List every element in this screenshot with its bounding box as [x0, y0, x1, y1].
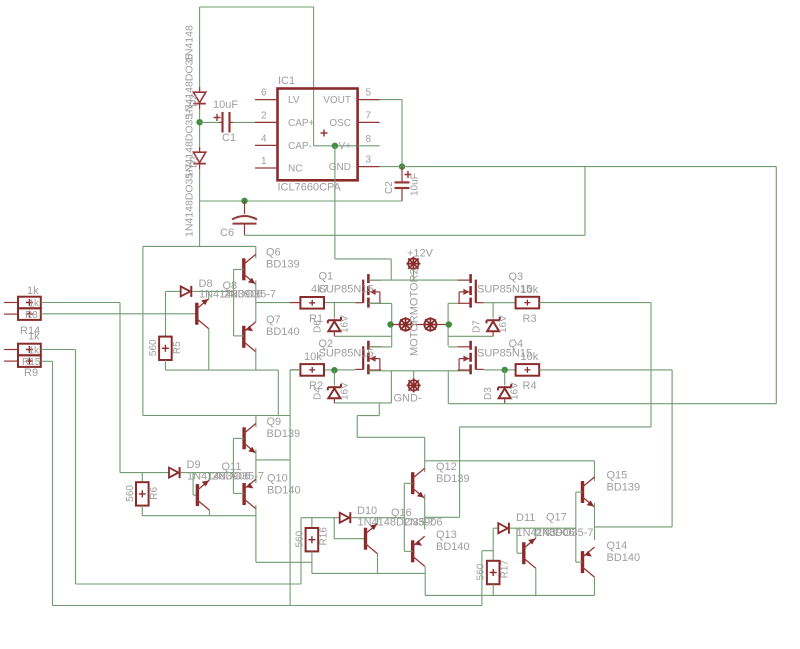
wire driver1 to R1 — [256, 302, 290, 304]
wire GND branch down — [584, 167, 586, 236]
transistor Q3 SUP85N15 — [458, 274, 484, 308]
pin 6 LV stub — [255, 99, 278, 101]
capacitor C1 — [214, 112, 234, 133]
svg-text:+12V: +12V — [407, 248, 434, 260]
wire input3 up — [300, 518, 302, 584]
motor terminal 2 — [423, 317, 438, 332]
resistor R15 — [4, 344, 41, 356]
transistor Q8 2N3906 — [197, 299, 209, 329]
wire R6 top — [141, 473, 143, 483]
svg-text:CAP+: CAP+ — [288, 118, 315, 129]
svg-text:R6: R6 — [149, 486, 160, 499]
wire Q17 base — [517, 552, 524, 554]
wire R16 bottom — [311, 551, 313, 573]
transistor Q13 BD140 — [413, 536, 425, 566]
svg-text:D10: D10 — [357, 505, 377, 517]
motor terminal 1 — [398, 317, 413, 332]
wire stage3 tap — [425, 516, 460, 518]
wire collector rail 3 — [425, 460, 595, 462]
svg-text:16V: 16V — [340, 315, 351, 333]
wire GND- stub — [413, 371, 415, 380]
svg-text:D11: D11 — [516, 512, 535, 524]
wire R16 left branch — [256, 561, 312, 563]
svg-text:R9: R9 — [24, 367, 38, 379]
wire Q1 source — [368, 302, 391, 304]
wire source rail drop — [390, 371, 392, 403]
pin 1 NC stub — [255, 167, 278, 169]
wire down to drain rail — [390, 259, 392, 280]
svg-text:R3: R3 — [523, 313, 537, 325]
pin 3 GND stub — [358, 166, 380, 168]
svg-text:Q12: Q12 — [436, 461, 457, 473]
svg-text:VOUT: VOUT — [323, 95, 351, 106]
wire Q17 emitter up — [535, 528, 537, 538]
wire Q15 base — [576, 491, 583, 493]
svg-text:16V: 16V — [340, 382, 351, 400]
wire Q15 collector up — [594, 461, 596, 481]
wire input1 — [41, 302, 120, 304]
resistor R17 — [487, 561, 500, 584]
wire D9 anode line — [120, 472, 169, 474]
transistor Q6 BD139 — [244, 254, 256, 284]
svg-text:10k: 10k — [521, 284, 539, 296]
svg-text:R4: R4 — [523, 380, 537, 392]
wire VOUT — [380, 99, 402, 101]
wire emitter bus 3 — [424, 494, 426, 529]
svg-text:1k: 1k — [28, 331, 40, 343]
wire input4 up — [481, 551, 483, 606]
wire Q4 gate to R4 — [484, 369, 516, 371]
svg-text:1k: 1k — [29, 346, 41, 357]
svg-text:10uF: 10uF — [213, 99, 238, 111]
wire base bus 2 — [232, 438, 234, 493]
wire stage1 left drop — [142, 246, 144, 415]
junction V+ node — [332, 143, 338, 149]
wire C6 to GND branch — [245, 234, 586, 236]
wire to D6 — [333, 303, 335, 318]
wire stage4 tap — [595, 526, 673, 528]
svg-text:R16: R16 — [318, 527, 329, 546]
wire emitter bus 4 — [594, 503, 596, 540]
svg-text:Q7: Q7 — [266, 314, 281, 326]
wire Q8 collector down — [208, 329, 210, 370]
svg-text:1N4148DO35: 1N4148DO35 — [184, 54, 196, 118]
wire R16 top — [311, 518, 313, 528]
wire stage1 bottom rail — [165, 369, 278, 371]
supply +12V symbol — [406, 257, 420, 271]
diode D8 — [181, 286, 192, 297]
wire Q17 base drop — [516, 528, 518, 553]
wire D1 down to driver rail — [199, 169, 201, 246]
svg-text:2N3906: 2N3906 — [212, 471, 251, 483]
wire GND right column — [775, 167, 777, 404]
resistor R8 — [4, 308, 41, 320]
supply GND- symbol — [407, 378, 421, 392]
transistor Q11 2N3906 — [197, 480, 209, 510]
wire R1 to Q1 gate — [324, 302, 355, 304]
svg-text:BD140: BD140 — [436, 541, 470, 553]
junction C1 node — [196, 119, 202, 125]
svg-text:4: 4 — [261, 133, 267, 144]
svg-text:D9: D9 — [187, 459, 201, 471]
svg-text:OSC: OSC — [329, 118, 351, 129]
transistor Q14 BD140 — [583, 547, 595, 577]
svg-text:2N3906: 2N3906 — [536, 527, 575, 539]
wire D11 anode line — [493, 527, 498, 529]
wire to D7 — [492, 303, 494, 318]
svg-text:5: 5 — [366, 88, 372, 99]
svg-text:1N4148: 1N4148 — [184, 25, 196, 62]
wire D3 to GND return — [504, 402, 506, 405]
wire Q11 emitter up — [208, 473, 210, 481]
wire drain rail — [368, 279, 470, 281]
pin 2 CAP+ stub — [255, 121, 278, 123]
wire input3 down — [75, 350, 77, 585]
resistor R1 — [290, 297, 324, 309]
wire stage1 rail drop — [277, 370, 279, 415]
capacitor C6 — [232, 201, 257, 235]
wire R17 bottom — [492, 584, 494, 595]
svg-text:BD140: BD140 — [267, 485, 301, 497]
IC1 polarity mark — [321, 130, 328, 137]
wire Q16 base drop — [333, 518, 335, 539]
wire source rail — [368, 370, 470, 372]
pin 7 OSC stub — [358, 121, 380, 123]
wire Q7 emitter up — [255, 303, 257, 322]
svg-text:10uF: 10uF — [410, 173, 421, 196]
svg-text:GND-: GND- — [394, 393, 422, 405]
wire Q8 emitter up — [208, 291, 210, 298]
svg-text:C1: C1 — [222, 132, 236, 144]
wire Q13 collector down — [424, 566, 426, 595]
wire Q4 drain — [448, 346, 457, 348]
transistor Q4 SUP85N15 — [458, 341, 484, 375]
svg-text:BD139: BD139 — [607, 482, 641, 494]
pin 8 V+ stub — [358, 145, 380, 147]
wire input2 to Q8 base — [41, 313, 197, 315]
svg-text:D6: D6 — [313, 320, 324, 333]
wire input4 — [41, 360, 53, 362]
wire input4 bottom — [53, 605, 482, 607]
motor right stub — [437, 324, 448, 326]
wire R3 column down — [650, 303, 652, 427]
wire C2 bottom rail — [200, 200, 402, 202]
op-amp IC1 ICL7660CPA box — [278, 89, 358, 181]
resistor R5 — [159, 337, 172, 360]
wire base bus 4 — [575, 492, 577, 562]
wire Q6 base — [234, 268, 244, 270]
wire input3 — [41, 349, 76, 351]
svg-text:BD139: BD139 — [436, 473, 470, 485]
wire V+ down — [334, 146, 336, 259]
svg-text:Q17: Q17 — [546, 512, 567, 524]
svg-text:8: 8 — [366, 134, 372, 145]
wire Q7 collector down — [255, 348, 257, 370]
wire D8 cathode to bus — [193, 290, 234, 292]
diode D2 — [193, 87, 205, 109]
wire Q14 base — [576, 561, 583, 563]
wire Q10 collector down — [255, 505, 257, 562]
wire Q16 emitter up — [377, 518, 379, 524]
wire to V+ pin — [314, 145, 358, 147]
wire input4 to R17 — [482, 550, 493, 552]
wire staircase 4 — [357, 436, 425, 438]
svg-text:3: 3 — [366, 155, 372, 166]
svg-text:CAP-: CAP- — [288, 141, 312, 152]
resistor R4 — [516, 364, 540, 376]
svg-text:560: 560 — [476, 563, 487, 580]
wire D9 cathode line — [181, 472, 234, 474]
svg-text:IC1: IC1 — [278, 75, 295, 87]
diode D9 — [169, 467, 180, 478]
svg-text:Q13: Q13 — [436, 529, 457, 541]
transistor Q15 BD139 — [583, 477, 595, 507]
svg-text:NC: NC — [288, 163, 302, 174]
wire Q9 base — [233, 437, 244, 439]
svg-text:BD140: BD140 — [607, 552, 641, 564]
junction C6 node — [241, 198, 247, 204]
resistor R16 — [306, 528, 319, 551]
motor left stub — [392, 324, 400, 326]
svg-text:SUP85N15: SUP85N15 — [319, 348, 374, 360]
svg-text:1k: 1k — [29, 299, 41, 310]
transistor Q9 BD139 — [244, 423, 256, 453]
wire Q9 collector line — [143, 415, 290, 417]
svg-text:Q6: Q6 — [266, 247, 281, 259]
wire V+ to +12V rail — [335, 258, 391, 260]
wire to D4 — [333, 370, 335, 385]
svg-text:D4: D4 — [313, 387, 324, 400]
wire base bus 3 — [403, 483, 405, 551]
wire staircase 3 — [356, 416, 358, 438]
wire C1 to pin2 — [233, 121, 278, 123]
wire Q3 gate to R3 — [484, 302, 516, 304]
wire R4 right — [539, 369, 672, 371]
wire R4 column down — [671, 370, 673, 527]
wire joint — [391, 346, 393, 347]
wire input1 down — [119, 303, 121, 473]
pin 5 VOUT stub — [358, 99, 380, 101]
transistor Q10 BD140 — [244, 479, 256, 509]
wire R2 to Q2 gate — [324, 369, 355, 371]
capacitor C2 — [395, 167, 412, 201]
transistor Q17 2N3906 — [524, 538, 536, 568]
wire to D3 — [504, 370, 506, 385]
wire Q11 base drop — [192, 473, 194, 496]
wire R3 right — [539, 302, 651, 304]
wire input3 bottom — [76, 583, 302, 585]
svg-text:1: 1 — [261, 156, 267, 167]
junction motor left — [387, 321, 393, 327]
wire to R2 — [290, 369, 300, 371]
svg-text:560: 560 — [125, 485, 136, 502]
svg-text:C6: C6 — [220, 227, 234, 239]
svg-text:10k: 10k — [521, 351, 539, 363]
wire input4 down — [52, 361, 54, 605]
wire emitter bus 2 — [255, 450, 257, 484]
wire D2-D1 — [199, 109, 201, 151]
wire staircase 2 — [357, 415, 379, 417]
wire staircase 1 — [378, 403, 380, 416]
zener diode D6 — [328, 317, 341, 336]
wire D8 anode — [166, 290, 181, 292]
zener diode D4 — [328, 384, 341, 403]
wire VOUT down — [401, 100, 403, 167]
wire Q9 collector up — [255, 416, 257, 428]
wire to C1 — [200, 121, 219, 123]
zener diode D3 — [498, 384, 511, 403]
motor M wire — [412, 324, 424, 326]
junction R4 gate node — [502, 367, 508, 373]
wire stage2 tap up — [289, 370, 291, 606]
svg-text:1k: 1k — [27, 285, 39, 297]
svg-text:V+: V+ — [338, 141, 351, 152]
svg-text:BD140: BD140 — [266, 326, 300, 338]
svg-text:6: 6 — [261, 88, 267, 99]
wire Q4 source drop — [447, 371, 449, 404]
svg-text:R17: R17 — [500, 560, 511, 579]
svg-text:560: 560 — [294, 530, 305, 547]
wire D4 return — [334, 402, 391, 404]
wire Q16 base — [334, 538, 365, 540]
wire D10 anode line — [301, 517, 340, 519]
wire motor left column — [391, 303, 393, 346]
wire Q17 collector down — [535, 568, 537, 595]
wire Q3 source — [448, 302, 457, 304]
svg-text:16V: 16V — [510, 382, 521, 400]
svg-text:MOTORMOTOR2: MOTORMOTOR2 — [409, 268, 421, 356]
wire Q10 base — [233, 492, 244, 494]
svg-text:Q9: Q9 — [267, 416, 282, 428]
junction GND C2 node — [399, 163, 405, 169]
wire GND to right edge — [380, 166, 777, 168]
wire stage1 top rail — [143, 245, 256, 247]
svg-text:ICL7660CPA: ICL7660CPA — [278, 182, 342, 194]
wire D7 to source — [448, 335, 493, 337]
svg-text:R8: R8 — [25, 310, 38, 321]
diode D10 — [340, 512, 351, 523]
wire Q2 drain — [368, 346, 391, 348]
wire stage2 bottom rail — [142, 515, 256, 517]
svg-text:Q14: Q14 — [607, 540, 628, 552]
resistor R6 — [136, 482, 149, 505]
wire Q12 base — [404, 482, 412, 484]
wire GND return — [448, 403, 776, 405]
wire base bus 1 — [233, 269, 235, 336]
wire top net — [200, 6, 314, 8]
wire D6 to source — [334, 335, 391, 337]
zener diode D7 — [487, 317, 500, 336]
wire stage3 tap up — [459, 427, 461, 517]
diode D1 — [193, 147, 205, 169]
wire into IC V+ — [313, 7, 315, 146]
svg-text:Q3: Q3 — [509, 271, 524, 283]
svg-text:LV: LV — [288, 95, 300, 106]
wire to D2 — [199, 7, 201, 91]
svg-text:C2: C2 — [384, 181, 395, 194]
svg-text:D3: D3 — [483, 387, 494, 400]
svg-text:D7: D7 — [472, 320, 483, 333]
wire D11 cathode line — [510, 527, 576, 529]
svg-text:BD139: BD139 — [266, 259, 300, 271]
wire R6 bottom — [141, 506, 143, 516]
wire Q12 collector up — [424, 461, 426, 472]
wire stage3 to R3 — [460, 426, 651, 428]
transistor Q1 SUP85N15 — [355, 274, 381, 308]
wire stage4 bottom rail — [425, 594, 594, 596]
resistor R2 — [290, 364, 324, 376]
svg-text:7: 7 — [366, 110, 372, 121]
wire R17 top — [492, 528, 494, 561]
transistor Q16 2N3906 — [366, 524, 378, 554]
svg-text:2N3906: 2N3906 — [224, 289, 263, 301]
wire +12V stub — [412, 269, 414, 280]
junction R2 gate node — [331, 367, 337, 373]
wire R5 bottom — [164, 360, 166, 370]
pin 4 CAP- stub — [255, 144, 278, 146]
wire Q11 base — [193, 494, 197, 496]
transistor Q12 BD139 — [413, 468, 425, 498]
svg-text:BD139: BD139 — [267, 428, 301, 440]
svg-text:2: 2 — [261, 110, 267, 121]
transistor Q2 SUP85N15 — [355, 341, 381, 375]
wire Q14 collector down — [594, 577, 596, 595]
wire D8 to R5 — [165, 291, 167, 336]
wire motor right column — [447, 303, 449, 346]
svg-text:Q10: Q10 — [267, 473, 288, 485]
svg-text:2N3906: 2N3906 — [404, 517, 443, 529]
svg-text:SUP85N15: SUP85N15 — [319, 284, 374, 296]
svg-text:R5: R5 — [172, 341, 183, 354]
svg-text:560: 560 — [148, 339, 159, 356]
wire Q11 collector down — [208, 510, 210, 516]
diode D11 — [498, 523, 509, 534]
wire D10 cathode line — [352, 517, 405, 519]
wire stage3 bottom rail — [312, 572, 425, 574]
wire Q7 base — [234, 335, 244, 337]
resistor R9 — [4, 355, 41, 367]
junction motor right — [446, 321, 452, 327]
wire stage2 tap — [256, 459, 290, 461]
wire Q6 collector up — [255, 246, 257, 258]
wire Q6 emitter down — [255, 281, 257, 303]
wire staircase 5 — [424, 437, 426, 461]
wire Q16 collector down — [377, 554, 379, 574]
resistor R3 — [516, 297, 540, 309]
svg-text:GND: GND — [329, 162, 351, 173]
transistor Q7 BD140 — [244, 322, 256, 352]
wire Q13 base — [404, 550, 412, 552]
resistor R14 — [4, 297, 41, 309]
svg-text:Q1: Q1 — [319, 271, 334, 283]
svg-text:Q15: Q15 — [607, 470, 628, 482]
svg-text:16V: 16V — [498, 315, 509, 333]
